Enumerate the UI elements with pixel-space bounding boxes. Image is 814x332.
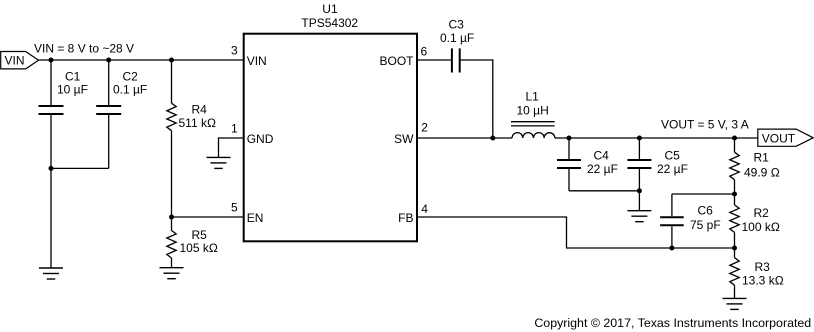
svg-text:22 µF: 22 µF bbox=[657, 162, 688, 176]
svg-text:6: 6 bbox=[421, 45, 428, 59]
wire VIN rail bbox=[39, 59, 244, 61]
pin 2 SW label bbox=[394, 121, 428, 146]
wire SW to L1 bbox=[417, 137, 512, 139]
svg-text:R3: R3 bbox=[755, 260, 771, 274]
pin 5 EN label bbox=[231, 201, 263, 225]
wire C2 bottom to C1 bbox=[51, 167, 109, 169]
wire L1 to VOUT tag bbox=[555, 137, 758, 139]
wire BOOT to C3 bbox=[417, 59, 452, 61]
svg-text:C1: C1 bbox=[65, 70, 81, 84]
svg-text:EN: EN bbox=[247, 211, 264, 225]
pin 6 BOOT label bbox=[379, 45, 427, 68]
svg-text:VOUT: VOUT bbox=[762, 131, 796, 145]
resistor R5 bbox=[167, 217, 218, 268]
svg-text:C4: C4 bbox=[594, 149, 610, 163]
svg-text:49.9 Ω: 49.9 Ω bbox=[744, 166, 780, 180]
wire R1/R2 junction to C6 bbox=[672, 193, 735, 195]
svg-text:0.1 µF: 0.1 µF bbox=[113, 83, 147, 97]
svg-text:10 µF: 10 µF bbox=[57, 83, 88, 97]
svg-text:105 kΩ: 105 kΩ bbox=[180, 241, 218, 255]
svg-text:SW: SW bbox=[394, 132, 414, 146]
svg-text:2: 2 bbox=[421, 121, 428, 135]
node C2 tap bbox=[106, 58, 111, 63]
node C4/C5 bottom junction bbox=[637, 188, 642, 193]
resistor R1 bbox=[730, 138, 780, 194]
inductor L1 bbox=[511, 90, 555, 139]
svg-text:75 pF: 75 pF bbox=[690, 218, 721, 232]
pin 4 FB label bbox=[398, 202, 428, 225]
pin 1 GND label bbox=[231, 122, 274, 146]
svg-text:511 kΩ: 511 kΩ bbox=[179, 116, 216, 130]
svg-text:100 kΩ: 100 kΩ bbox=[742, 220, 780, 234]
svg-text:VIN = 8 V to ~28 V: VIN = 8 V to ~28 V bbox=[34, 41, 134, 55]
ground at GND pin bbox=[207, 157, 231, 168]
op IC U1 TPS54302 bbox=[244, 2, 417, 241]
svg-text:3: 3 bbox=[231, 44, 238, 58]
wire C4 bottom to C5 bbox=[569, 190, 639, 192]
ground at C5 bbox=[627, 211, 651, 222]
svg-text:BOOT: BOOT bbox=[379, 54, 414, 68]
node C4 tap bbox=[567, 136, 572, 141]
wire C3 to SW node bbox=[460, 60, 493, 138]
svg-text:Copyright © 2017, Texas Instru: Copyright © 2017, Texas Instruments Inco… bbox=[534, 316, 811, 330]
svg-text:C6: C6 bbox=[698, 204, 714, 218]
svg-text:1: 1 bbox=[231, 122, 238, 136]
node R4 tap bbox=[169, 58, 174, 63]
svg-text:4: 4 bbox=[421, 202, 428, 216]
wire FB to R2/R3 junction bbox=[417, 217, 735, 248]
svg-text:FB: FB bbox=[398, 211, 413, 225]
svg-text:VOUT = 5 V, 3 A: VOUT = 5 V, 3 A bbox=[661, 118, 749, 132]
svg-text:13.3 kΩ: 13.3 kΩ bbox=[742, 274, 784, 288]
svg-text:TPS54302: TPS54302 bbox=[301, 16, 358, 30]
capacitor C3 bbox=[440, 18, 474, 73]
resistor R4 bbox=[167, 60, 216, 217]
node R2/R3 junction bbox=[732, 246, 737, 251]
capacitor C1 bbox=[39, 60, 88, 268]
capacitor C4 bbox=[557, 138, 618, 191]
svg-text:R1: R1 bbox=[754, 151, 770, 165]
capacitor C6 bbox=[660, 194, 721, 248]
ground at R3 bbox=[723, 298, 747, 309]
ground at C1 bbox=[39, 268, 63, 279]
svg-text:C5: C5 bbox=[665, 149, 681, 163]
node C1 tap bbox=[49, 58, 54, 63]
node SW/C3 junction bbox=[490, 136, 495, 141]
capacitor C5 bbox=[627, 138, 688, 211]
svg-text:U1: U1 bbox=[322, 2, 338, 16]
svg-text:22 µF: 22 µF bbox=[587, 162, 618, 176]
svg-text:R4: R4 bbox=[192, 103, 208, 117]
node R1/R2 junction bbox=[732, 192, 737, 197]
svg-text:GND: GND bbox=[247, 132, 274, 146]
output tag VOUT bbox=[758, 129, 813, 146]
resistor R2 bbox=[730, 194, 780, 248]
resistor R3 bbox=[730, 248, 784, 298]
svg-text:R5: R5 bbox=[192, 228, 208, 242]
svg-text:VIN: VIN bbox=[5, 54, 25, 68]
node C6/FB junction bbox=[669, 246, 674, 251]
wire EN bbox=[172, 216, 244, 218]
input tag VIN bbox=[1, 52, 39, 69]
node C1/C2 bottom junction bbox=[49, 166, 54, 171]
wire GND pin to ground bbox=[219, 138, 244, 157]
svg-text:L1: L1 bbox=[526, 90, 540, 104]
svg-text:0.1 µF: 0.1 µF bbox=[440, 31, 474, 45]
svg-text:C2: C2 bbox=[123, 70, 139, 84]
node EN/R4/R5 junction bbox=[169, 215, 174, 220]
svg-text:10 µH: 10 µH bbox=[517, 104, 549, 118]
svg-text:C3: C3 bbox=[449, 18, 465, 32]
node C5 tap bbox=[637, 136, 642, 141]
pin 3 VIN label bbox=[231, 44, 267, 68]
svg-text:R2: R2 bbox=[754, 206, 770, 220]
svg-text:5: 5 bbox=[231, 201, 238, 215]
node R1 tap bbox=[732, 136, 737, 141]
svg-text:VIN: VIN bbox=[247, 54, 267, 68]
ground at R5 bbox=[160, 268, 184, 279]
capacitor C2 bbox=[96, 60, 147, 168]
